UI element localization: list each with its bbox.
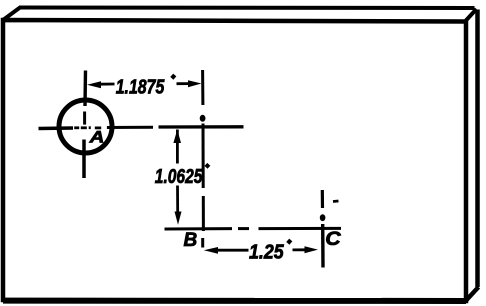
centerline A horizontal left segment <box>39 126 74 130</box>
plate bottom-right chamfer <box>466 287 479 301</box>
plate top-left chamfer <box>3 8 20 21</box>
svg-text:C: C <box>325 229 341 250</box>
plate back right edge <box>475 10 480 288</box>
svg-text:B: B <box>184 230 198 251</box>
dim 1.1875 inch mark <box>172 75 175 78</box>
centerline B-C horizontal dash-dot <box>165 227 233 230</box>
svg-text:1.25: 1.25 <box>249 242 284 264</box>
centerline A horizontal right segment <box>107 126 153 129</box>
dim 1.25 right shaft <box>293 248 307 251</box>
dim 1.25 left arrowhead <box>204 247 218 254</box>
dim 1.25 inch mark <box>288 240 291 243</box>
dim 1.0625 lower shaft <box>176 186 179 215</box>
centerline A vertical top segment <box>83 71 87 107</box>
plate bottom edge (thicker) <box>3 298 466 304</box>
centerline A vertical bottom segment <box>82 140 86 179</box>
dim 1.1875 left arrowhead <box>87 81 101 88</box>
centerline A horizontal dashes inside circle <box>74 126 79 129</box>
dim 1.0625 inch mark <box>206 164 209 167</box>
dim 1.25 right arrowhead <box>305 246 319 253</box>
dim 1.1875 right shaft <box>177 82 193 85</box>
plate top-right chamfer <box>465 9 477 22</box>
centerline A vertical dash inside circle <box>83 112 86 125</box>
hole A circle <box>59 100 112 153</box>
dim 1.1875 left shaft <box>99 83 115 86</box>
dim 1.0625 top arrowhead <box>173 130 181 144</box>
dim 1.0625 upper shaft <box>176 130 179 164</box>
dim 1.0625 bottom arrowhead <box>175 212 182 225</box>
stray tick near C <box>333 200 339 203</box>
dim 1.1875 right arrowhead <box>188 80 202 87</box>
centerline C vertical dash-dot <box>321 190 324 208</box>
svg-text:1.1875: 1.1875 <box>116 76 165 98</box>
dim 1.25 left shaft <box>215 249 249 252</box>
svg-text:A: A <box>89 127 105 146</box>
plate back top edge <box>19 6 475 11</box>
centerline B vertical dash-dot <box>201 70 204 105</box>
svg-text:1.0625: 1.0625 <box>155 165 203 187</box>
